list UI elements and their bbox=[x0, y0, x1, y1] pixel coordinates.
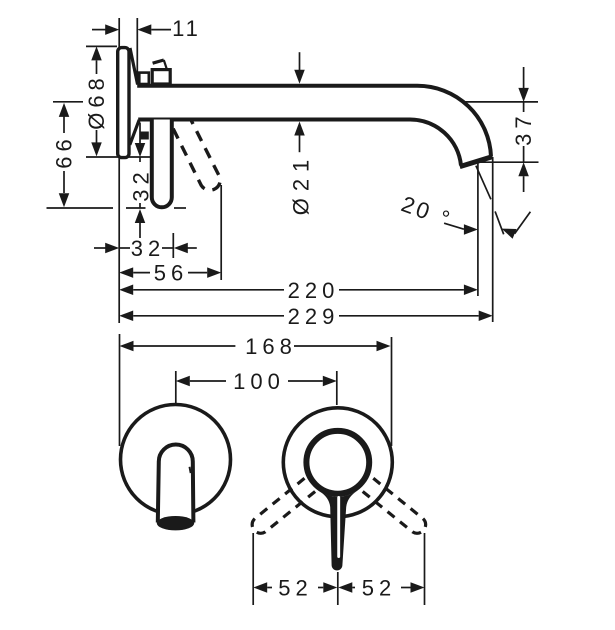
svg-text:32: 32 bbox=[129, 167, 154, 201]
body bottom edge bbox=[140, 132, 149, 140]
spout front tube bbox=[158, 445, 194, 523]
dimension 52 right bbox=[338, 582, 352, 593]
svg-text:168: 168 bbox=[245, 334, 297, 359]
spout outlet face bbox=[460, 157, 493, 167]
svg-text:32: 32 bbox=[131, 236, 165, 261]
dimension Ø68 bbox=[86, 45, 117, 47]
dimension 37 bbox=[463, 101, 538, 103]
svg-text:52: 52 bbox=[362, 576, 396, 601]
handle dashed left bbox=[252, 478, 315, 533]
svg-text:20 °: 20 ° bbox=[398, 191, 456, 232]
handle ring front bbox=[306, 431, 369, 494]
svg-text:229: 229 bbox=[288, 304, 340, 329]
escutcheon circle right bbox=[283, 408, 392, 517]
escutcheon plate side bbox=[118, 48, 129, 158]
svg-text:37: 37 bbox=[511, 111, 536, 145]
dimension 66 bbox=[53, 101, 83, 103]
cone bottom slope bbox=[130, 120, 139, 145]
dimension 11 line+arrows bbox=[92, 29, 106, 31]
dimension Ø21 bbox=[299, 52, 301, 70]
lever solid side bbox=[152, 120, 172, 208]
spout front seam bbox=[190, 467, 191, 473]
dimension 220 bbox=[119, 285, 133, 296]
angle 20 deg arrow 2 bbox=[502, 229, 517, 239]
dimension 32 vertical bbox=[126, 207, 146, 209]
svg-text:220: 220 bbox=[288, 278, 340, 303]
spout front outlet bbox=[157, 516, 194, 530]
svg-text:66: 66 bbox=[52, 134, 77, 168]
handle nub line bbox=[153, 60, 164, 63]
svg-text:52: 52 bbox=[278, 576, 312, 601]
cartridge block 2 bbox=[152, 70, 170, 84]
dimension 229 bbox=[119, 311, 133, 322]
wire 11 right extension bbox=[136, 18, 138, 84]
svg-text:11: 11 bbox=[172, 16, 201, 41]
cartridge block 1 bbox=[139, 73, 149, 84]
angle 20 deg line bbox=[476, 166, 491, 200]
lever dashed side bbox=[170, 121, 221, 190]
dimension 100 bbox=[176, 376, 190, 387]
dimension 52 left bbox=[253, 582, 267, 593]
spout top edge bbox=[137, 86, 491, 157]
handle stem front bbox=[318, 491, 357, 571]
dimension 168 bbox=[120, 341, 134, 352]
dimension 56 bbox=[119, 267, 133, 278]
angle 20 deg leader bbox=[444, 223, 464, 229]
dimension 32 horizontal bbox=[94, 247, 106, 249]
wire wall extension line bbox=[118, 18, 120, 323]
spout bottom edge bbox=[138, 120, 461, 166]
svg-text:100: 100 bbox=[233, 369, 285, 394]
handle dashed right bbox=[363, 478, 426, 533]
cone top slope bbox=[130, 48, 138, 85]
svg-text:56: 56 bbox=[154, 261, 188, 286]
escutcheon circle left bbox=[121, 405, 231, 515]
svg-text:Ø21: Ø21 bbox=[289, 153, 314, 216]
svg-text:Ø68: Ø68 bbox=[84, 73, 109, 130]
